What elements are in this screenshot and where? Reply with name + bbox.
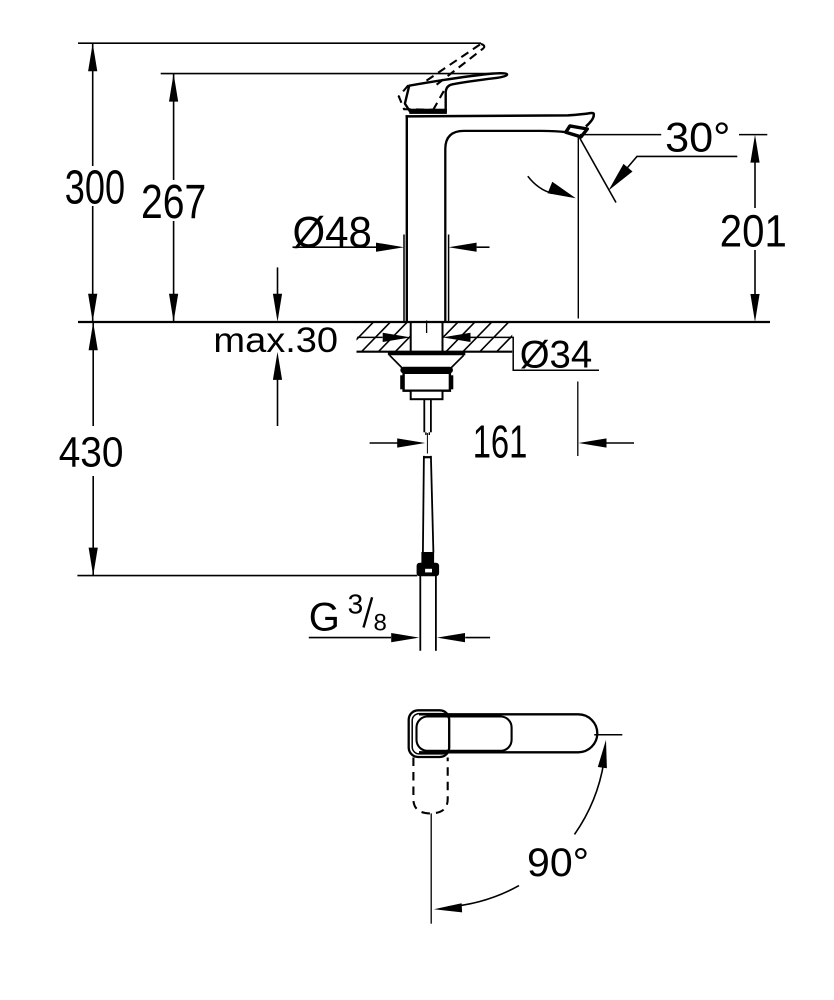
spout top surface	[406, 113, 594, 126]
svg-text:430: 430	[59, 429, 124, 477]
svg-text:G: G	[309, 596, 340, 640]
nut highlight	[425, 568, 433, 573]
bottom hose left edge	[419, 576, 421, 651]
shank through counter left	[410, 322, 412, 352]
supply pipe top cap	[423, 456, 431, 458]
faucet base sleeve left edge (O48)	[403, 235, 405, 322]
30 deg extension line right of label	[739, 134, 767, 136]
top view: lever body	[419, 714, 597, 752]
top view: hidden body below (dashed)	[413, 758, 447, 814]
shank through counter right	[442, 322, 444, 352]
shank centre tick	[426, 321, 428, 334]
max.30 lower arrow	[277, 380, 279, 427]
supply pipe upper	[423, 456, 424, 553]
svg-text:161: 161	[473, 416, 528, 468]
svg-text:8: 8	[374, 610, 387, 637]
G3/8 connection nut	[417, 563, 439, 576]
svg-text:3: 3	[348, 589, 364, 620]
90 deg arc	[448, 886, 519, 907]
handle raised (dashed) tip	[481, 44, 484, 48]
bottom ref line (hose end, 430)	[77, 575, 417, 577]
30 deg leader with arrow	[622, 156, 737, 174]
nut side tab left	[401, 376, 404, 389]
centreline in gap	[426, 433, 428, 454]
top view: lever tip reference line	[594, 734, 622, 736]
svg-text:201: 201	[720, 206, 787, 257]
svg-text:Ø34: Ø34	[520, 334, 593, 377]
threaded rod	[423, 399, 425, 432]
handle raised position (dashed) blade upper edge	[427, 44, 481, 81]
dim 201 vertical line with arrows	[754, 163, 756, 209]
30 deg water-stream diagonal	[579, 136, 616, 203]
spout axis extension below counter	[577, 382, 579, 457]
handle raised (dashed) pivot outline	[399, 85, 433, 110]
svg-text:267: 267	[141, 176, 206, 229]
o-ring bar	[401, 367, 453, 373]
dimension ref line top (300 upper reference at handle-up tip)	[78, 42, 481, 44]
max.30 upper arrow	[277, 267, 279, 294]
dim 430 vertical line with arrows	[92, 322, 94, 426]
countertop line	[78, 321, 770, 323]
rod tip	[425, 432, 427, 435]
bottom hose right edge	[435, 576, 437, 651]
dim 161 left arrow	[370, 442, 398, 444]
nut side tab right	[450, 376, 453, 389]
top view: lever top-surface inner outline	[417, 717, 512, 751]
top view: centreline down	[430, 813, 432, 923]
top view: handle end cap outer	[409, 710, 450, 757]
dim O48 line right part with arrow	[477, 246, 490, 248]
hose fitting block	[422, 553, 434, 564]
dim 300 vertical line with arrows	[92, 43, 94, 166]
mounting nut	[404, 373, 450, 391]
flange top plate	[388, 352, 465, 355]
svg-text:90°: 90°	[527, 841, 589, 885]
flange skirt right	[451, 355, 464, 367]
dim 161 right arrow	[607, 442, 635, 444]
rotation curved arrow	[528, 176, 552, 193]
svg-text:Ø48: Ø48	[293, 208, 372, 257]
counter band bottom line	[357, 351, 513, 353]
hole dim arrow left (O34)	[357, 336, 382, 338]
handle raised (dashed) pivot diagonal	[433, 86, 446, 109]
faucet column right edge with spout underside fillet	[445, 131, 566, 322]
dim O48 line left part with arrow	[293, 246, 377, 248]
dim G3/8 line left with arrow	[309, 637, 391, 639]
hole dim arrow right and O34 leader	[443, 333, 471, 342]
top view: handle end cap inner line	[412, 714, 449, 754]
90 deg arc top arrow	[598, 740, 607, 768]
handle lever (rest position)	[405, 73, 507, 111]
flange skirt left	[390, 355, 402, 367]
shank end below nut	[411, 391, 443, 400]
faucet base sleeve right edge (O48)	[448, 235, 450, 322]
90 deg arc upper segment	[575, 757, 605, 834]
spout axis vertical above counter	[577, 137, 579, 319]
handle base dark bar	[410, 109, 447, 113]
30 deg extension line left of label	[580, 134, 661, 136]
faucet column left edge	[406, 115, 408, 321]
svg-text:30°: 30°	[665, 113, 730, 160]
handle raised (dashed) blade lower edge	[437, 48, 484, 85]
svg-text:max.30: max.30	[213, 321, 338, 360]
dim 267 vertical line with arrows	[173, 74, 175, 180]
svg-text:300: 300	[65, 162, 125, 215]
spout aerator outlet	[566, 126, 588, 137]
90 deg arc bottom arrow	[434, 903, 462, 912]
dim G3/8 line right with arrow	[465, 637, 490, 639]
dimension ref line 267 (handle rest-position top)	[161, 73, 505, 75]
counter section hatching	[310, 321, 543, 352]
